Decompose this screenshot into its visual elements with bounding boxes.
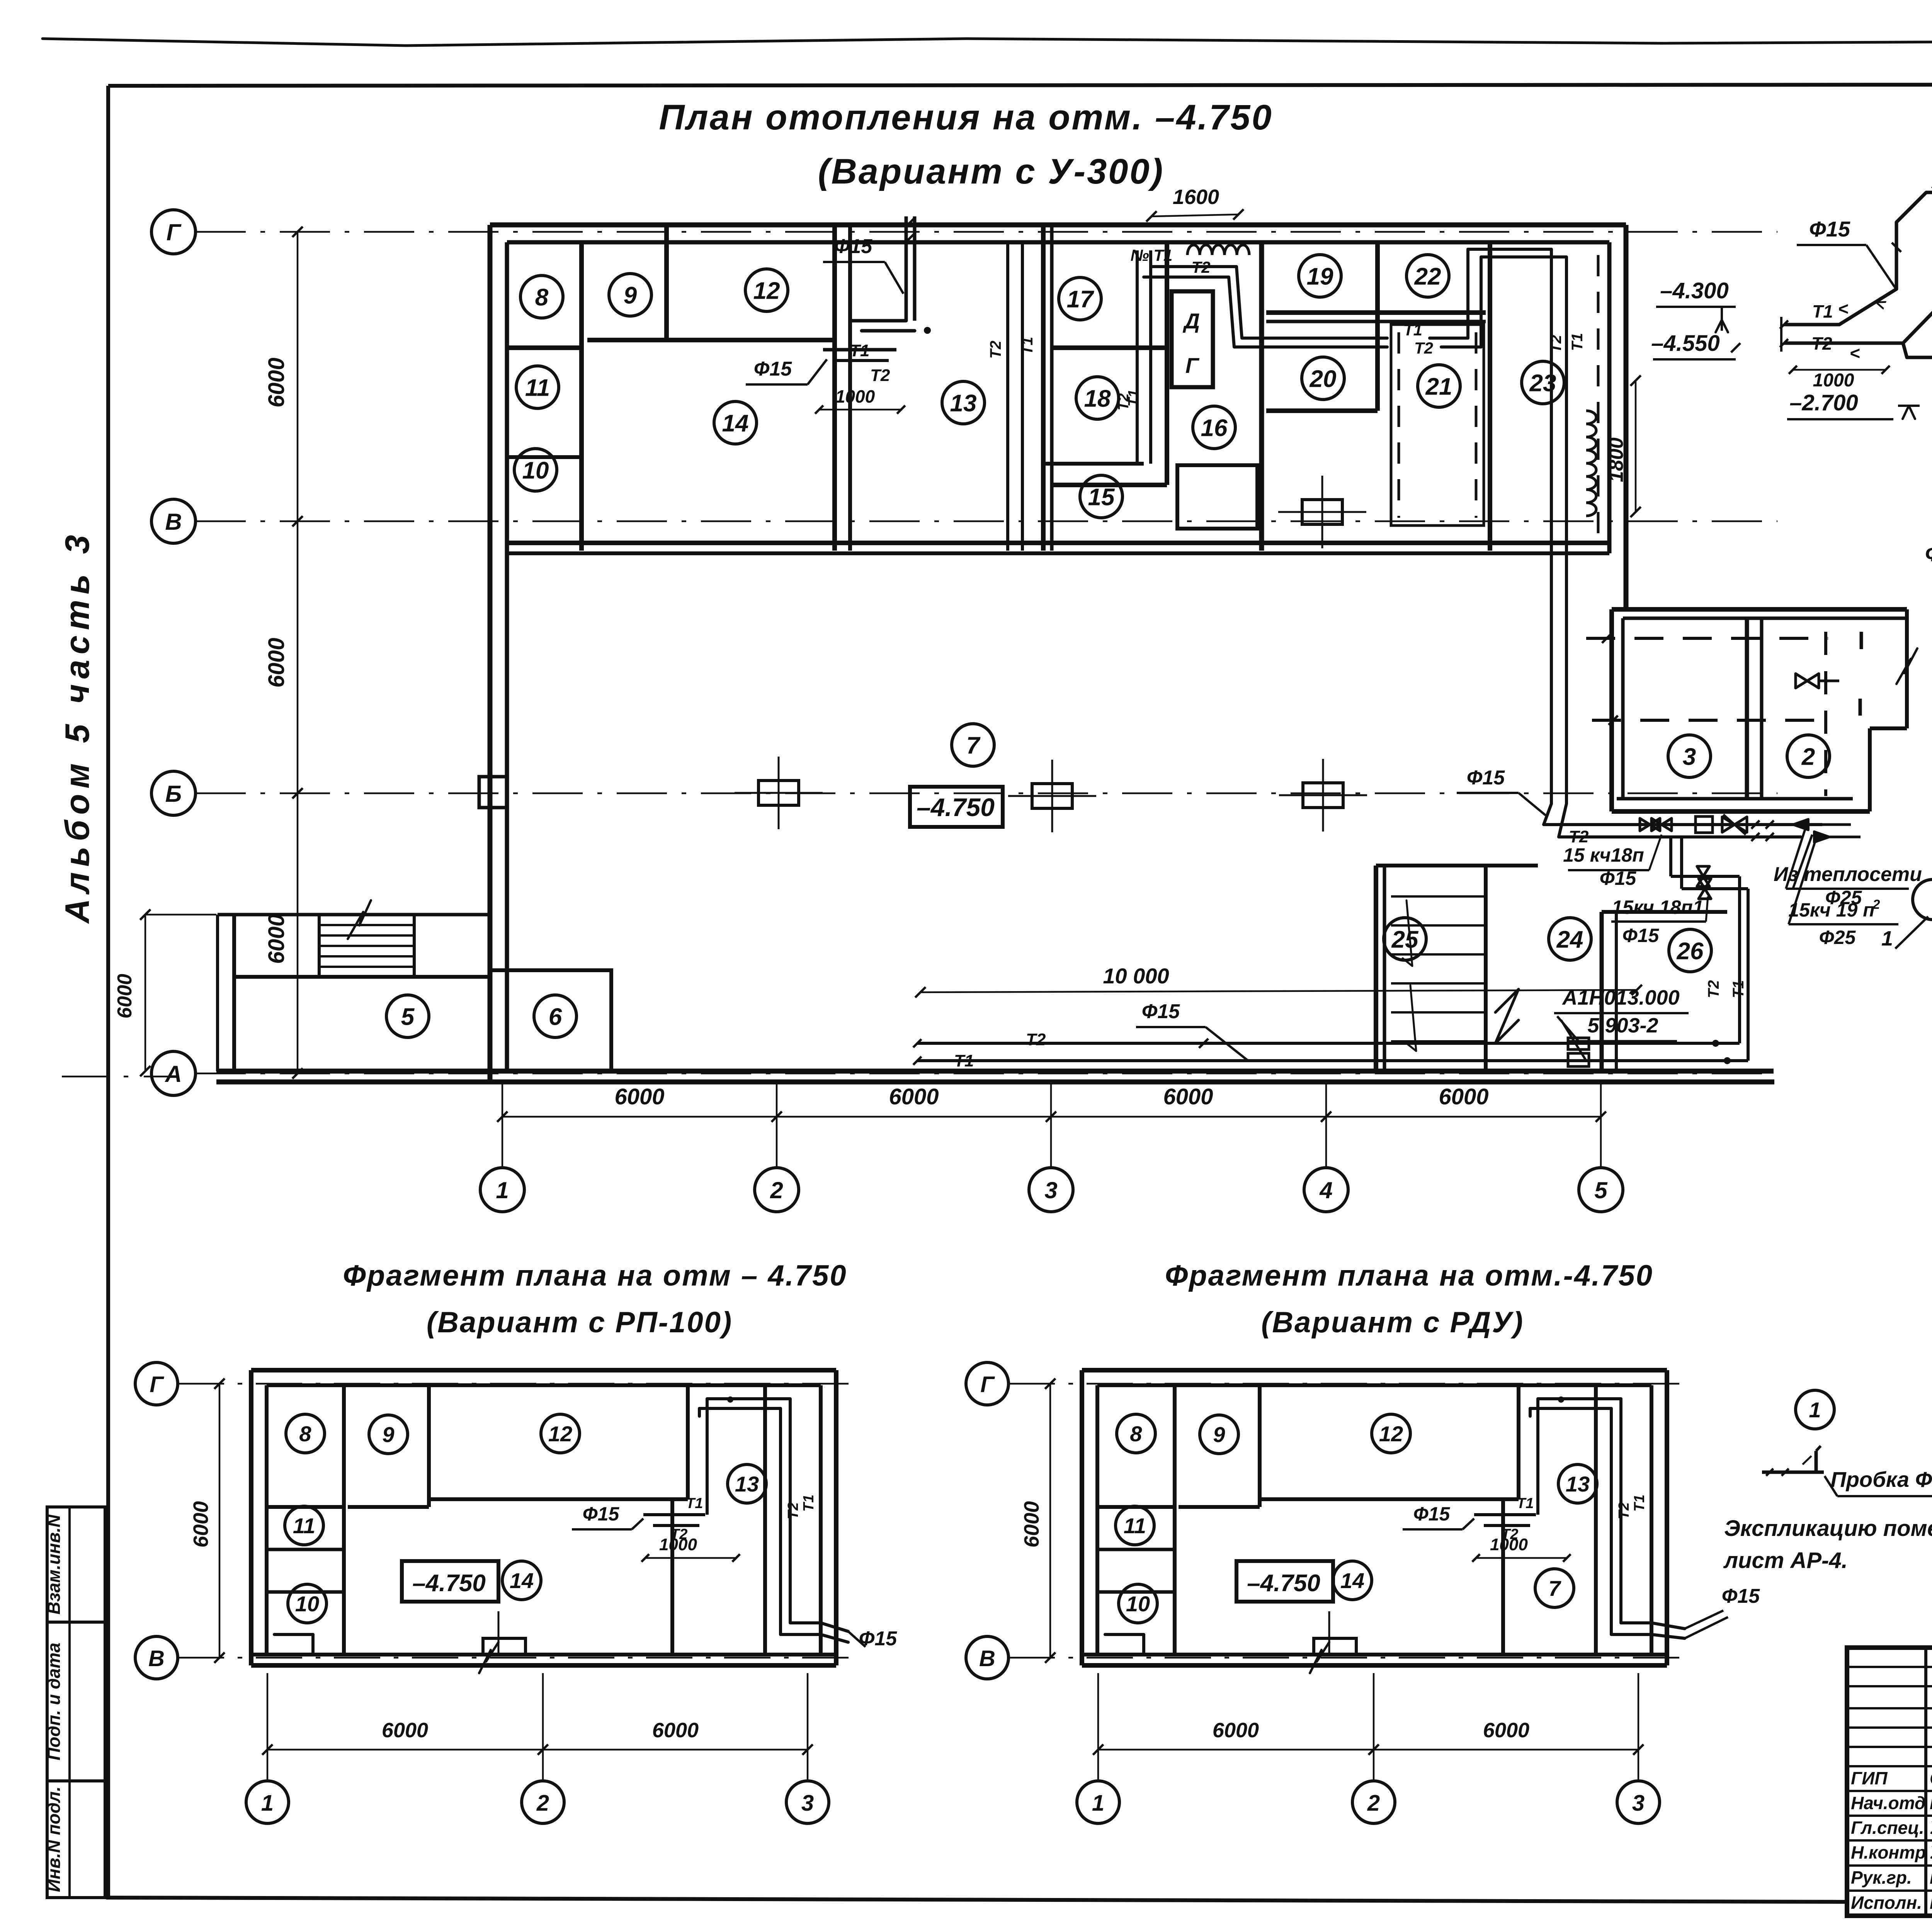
svg-text:Т2: Т2: [1705, 980, 1722, 998]
svg-text:Ф15: Ф15: [1467, 767, 1505, 789]
svg-text:2: 2: [536, 1791, 549, 1816]
svg-text:Ф15: Ф15: [1142, 1000, 1180, 1023]
svg-text:–4.300: –4.300: [1660, 278, 1728, 303]
svg-text:11: 11: [1124, 1514, 1146, 1538]
svg-text:Ф15: Ф15: [1809, 217, 1850, 241]
svg-text:8: 8: [299, 1422, 311, 1446]
svg-text:Мустакимова: Мустакимова: [1930, 1893, 1932, 1913]
svg-text:Ф15: Ф15: [754, 358, 793, 380]
svg-text:19: 19: [1307, 263, 1333, 290]
svg-text:Т2: Т2: [1026, 1030, 1046, 1049]
svg-text:Ф15: Ф15: [1413, 1503, 1451, 1525]
svg-text:Экспликацию помещений ст. альб: Экспликацию помещений ст. альбом 2: [1724, 1516, 1932, 1541]
svg-text:–4.750: –4.750: [1247, 1570, 1320, 1597]
svg-text:Рук.гр.: Рук.гр.: [1851, 1867, 1912, 1888]
svg-text:6000: 6000: [1020, 1501, 1043, 1548]
svg-text:1: 1: [1809, 1398, 1821, 1422]
svg-text:2: 2: [770, 1177, 783, 1203]
svg-text:14: 14: [722, 410, 749, 437]
svg-text:1000: 1000: [659, 1535, 697, 1554]
svg-text:11: 11: [525, 374, 550, 401]
svg-text:6000: 6000: [382, 1719, 428, 1742]
svg-text:Т1: Т1: [1517, 1495, 1534, 1512]
svg-text:24: 24: [1556, 926, 1583, 953]
svg-text:Ф15: Ф15: [1925, 541, 1932, 566]
svg-text:25: 25: [1391, 926, 1419, 953]
svg-text:Т1: Т1: [1403, 321, 1422, 339]
svg-text:1000: 1000: [1490, 1535, 1528, 1554]
svg-text:10: 10: [522, 457, 549, 484]
svg-text:26: 26: [1677, 938, 1704, 964]
svg-text:А: А: [164, 1061, 182, 1087]
svg-text:1: 1: [1092, 1791, 1104, 1816]
svg-text:1: 1: [261, 1791, 274, 1816]
svg-text:Т1: Т1: [1019, 337, 1036, 355]
svg-text:Т2: Т2: [785, 1502, 801, 1519]
svg-text:3: 3: [1044, 1177, 1057, 1203]
svg-text:<: <: [1850, 343, 1860, 363]
svg-text:Т2: Т2: [1116, 393, 1132, 410]
svg-text:6000: 6000: [264, 638, 289, 687]
svg-text:10: 10: [1126, 1592, 1150, 1616]
svg-text:1800: 1800: [1605, 437, 1628, 482]
svg-text:10: 10: [295, 1592, 319, 1616]
svg-text:Ф15: Ф15: [1722, 1585, 1760, 1607]
svg-text:Фрагмент плана на отм – 4.750: Фрагмент плана на отм – 4.750: [343, 1259, 847, 1292]
svg-text:Т1: Т1: [686, 1495, 703, 1512]
svg-text:1: 1: [1881, 927, 1893, 950]
svg-text:8: 8: [535, 284, 549, 311]
svg-text:17: 17: [1067, 286, 1094, 313]
svg-text:18: 18: [1084, 385, 1111, 412]
svg-text:12: 12: [548, 1422, 572, 1446]
svg-text:5.903-2: 5.903-2: [1587, 1014, 1658, 1037]
svg-text:Ф15: Ф15: [1622, 925, 1660, 946]
svg-text:11: 11: [293, 1514, 315, 1538]
svg-text:10 000: 10 000: [1103, 964, 1169, 988]
svg-text:3: 3: [801, 1791, 814, 1816]
svg-text:Сомитов: Сомитов: [1930, 1768, 1932, 1788]
svg-text:Т2: Т2: [987, 341, 1004, 359]
svg-text:–4.750: –4.750: [917, 793, 995, 821]
svg-text:Усенков: Усенков: [1930, 1842, 1932, 1862]
svg-text:В: В: [979, 1646, 995, 1671]
svg-text:Гл.спец.: Гл.спец.: [1851, 1818, 1924, 1838]
svg-text:Фрагмент плана на отм.-4.750: Фрагмент плана на отм.-4.750: [1165, 1259, 1653, 1292]
svg-text:В: В: [148, 1646, 165, 1671]
svg-text:Г: Г: [150, 1372, 164, 1397]
svg-text:Т1: Т1: [850, 341, 869, 360]
svg-text:Ф15: Ф15: [583, 1503, 620, 1525]
svg-text:Пробка Ф15: Пробка Ф15: [1830, 1467, 1932, 1492]
svg-text:Д: Д: [1183, 309, 1200, 333]
svg-text:9: 9: [624, 282, 637, 309]
svg-text:Т1: Т1: [801, 1495, 817, 1512]
svg-text:15: 15: [1088, 484, 1115, 510]
svg-text:7: 7: [1548, 1576, 1561, 1600]
svg-text:6000: 6000: [614, 1084, 664, 1109]
svg-text:6000: 6000: [114, 974, 136, 1019]
svg-text:14: 14: [1340, 1568, 1364, 1593]
svg-text:Т2: Т2: [1616, 1502, 1632, 1519]
svg-text:6000: 6000: [264, 357, 289, 407]
svg-text:6000: 6000: [1483, 1719, 1529, 1742]
svg-text:Г: Г: [980, 1372, 995, 1397]
svg-text:2: 2: [1801, 743, 1815, 770]
svg-text:6000: 6000: [652, 1719, 699, 1742]
svg-text:ГИП: ГИП: [1851, 1768, 1888, 1788]
svg-text:Козлов: Козлов: [1930, 1793, 1932, 1813]
svg-text:Т1: Т1: [954, 1051, 974, 1070]
svg-text:Т1: Т1: [1929, 272, 1932, 298]
svg-text:–4.750: –4.750: [412, 1570, 486, 1597]
svg-text:20: 20: [1310, 366, 1337, 392]
svg-text:Т2: Т2: [870, 366, 890, 385]
svg-text:Альбом 5 часть 3: Альбом 5 часть 3: [58, 530, 96, 924]
svg-text:Г: Г: [167, 219, 182, 245]
svg-text:12: 12: [753, 277, 780, 304]
svg-text:Б: Б: [165, 781, 182, 807]
svg-text:Т2: Т2: [1414, 339, 1433, 357]
svg-text:15кч 18п1: 15кч 18п1: [1612, 896, 1703, 918]
svg-text:В: В: [165, 509, 182, 535]
svg-text:Ф25: Ф25: [1819, 927, 1856, 948]
svg-text:16: 16: [1201, 415, 1228, 441]
svg-text:3: 3: [1632, 1791, 1645, 1816]
svg-text:6: 6: [549, 1003, 562, 1030]
svg-text:Взам.инв.N: Взам.инв.N: [44, 1514, 64, 1615]
svg-text:6000: 6000: [1163, 1084, 1213, 1109]
svg-text:Подп. и дата: Подп. и дата: [44, 1643, 64, 1760]
svg-text:1600: 1600: [1173, 185, 1219, 209]
svg-text:9: 9: [1213, 1422, 1225, 1447]
svg-text:4: 4: [1319, 1177, 1332, 1203]
svg-text:2: 2: [1367, 1791, 1380, 1816]
svg-text:6000: 6000: [264, 914, 289, 964]
svg-text:3: 3: [1683, 743, 1696, 770]
svg-text:Т2: Т2: [1569, 827, 1589, 846]
svg-text:5: 5: [401, 1003, 415, 1030]
svg-text:12: 12: [1379, 1422, 1403, 1446]
svg-text:6000: 6000: [1213, 1719, 1259, 1742]
svg-text:Н.контр: Н.контр: [1851, 1842, 1926, 1862]
svg-text:2: 2: [1872, 897, 1880, 912]
svg-text:22: 22: [1414, 263, 1441, 290]
svg-text:1: 1: [496, 1177, 509, 1203]
svg-text:Т2: Т2: [1548, 335, 1565, 353]
svg-text:(Вариант с У-300): (Вариант с У-300): [818, 152, 1165, 191]
svg-text:7: 7: [966, 732, 981, 759]
svg-text:6000: 6000: [189, 1501, 213, 1548]
svg-text:Ф15: Ф15: [1600, 867, 1637, 889]
svg-text:1000: 1000: [835, 386, 875, 406]
svg-text:<: <: [1873, 293, 1889, 315]
svg-text:21: 21: [1425, 373, 1452, 400]
svg-text:Т1: Т1: [1631, 1495, 1648, 1512]
svg-text:Ф15: Ф15: [834, 235, 873, 258]
svg-text:13: 13: [735, 1472, 759, 1496]
svg-text:–4.550: –4.550: [1651, 331, 1719, 356]
svg-text:<: <: [1838, 299, 1849, 319]
svg-text:Т1: Т1: [1812, 301, 1833, 321]
svg-text:6000: 6000: [889, 1084, 939, 1109]
svg-text:План отопления на отм. –4.750: План отопления на отм. –4.750: [659, 98, 1273, 137]
svg-text:Т1: Т1: [1569, 333, 1586, 351]
svg-text:14: 14: [510, 1568, 534, 1593]
svg-text:Усенков: Усенков: [1930, 1818, 1932, 1838]
svg-text:8: 8: [1130, 1422, 1142, 1446]
svg-text:Т2: Т2: [1811, 333, 1832, 354]
svg-text:13: 13: [950, 390, 977, 417]
svg-text:1000: 1000: [1813, 370, 1854, 391]
svg-text:Г: Г: [1185, 353, 1200, 378]
svg-text:Инв.N подл.: Инв.N подл.: [44, 1786, 64, 1892]
svg-text:А1Н013.000: А1Н013.000: [1561, 986, 1679, 1009]
svg-text:9: 9: [382, 1422, 394, 1447]
svg-text:Нач.отд: Нач.отд: [1851, 1793, 1925, 1813]
svg-text:Исполн.: Исполн.: [1851, 1893, 1922, 1913]
svg-text:15 кч18п: 15 кч18п: [1563, 844, 1644, 866]
svg-text:5: 5: [1594, 1177, 1608, 1203]
svg-text:15кч 19 п: 15кч 19 п: [1788, 899, 1874, 921]
svg-text:Васильева: Васильева: [1930, 1867, 1932, 1888]
svg-text:13: 13: [1566, 1472, 1590, 1496]
svg-text:–2.700: –2.700: [1789, 390, 1858, 415]
svg-text:(Вариант с РДУ): (Вариант с РДУ): [1261, 1306, 1524, 1339]
svg-text:6000: 6000: [1439, 1084, 1488, 1109]
svg-text:(Вариант с РП-100): (Вариант с РП-100): [427, 1306, 733, 1339]
svg-text:лист АР-4.: лист АР-4.: [1723, 1548, 1848, 1573]
